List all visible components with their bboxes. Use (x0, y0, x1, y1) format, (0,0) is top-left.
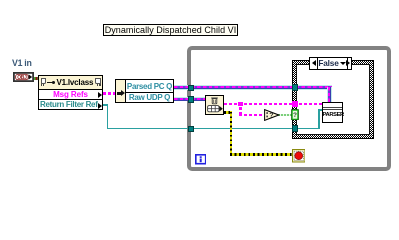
svg-text:?: ? (269, 113, 273, 120)
svg-text:OBJ: OBJ (17, 75, 27, 81)
svg-text:?: ? (293, 112, 297, 119)
